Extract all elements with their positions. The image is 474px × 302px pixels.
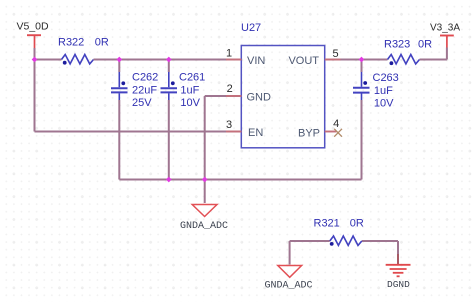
resistor R321 wires	[290, 240, 330, 242]
resistor R322	[62, 55, 94, 64]
pin stub EN	[226, 131, 242, 133]
pin stub BYP	[325, 131, 337, 133]
svg-text:R321: R321	[314, 217, 340, 229]
svg-text:C261: C261	[179, 72, 205, 84]
svg-text:R322: R322	[58, 37, 84, 49]
C263 dot	[363, 81, 367, 85]
wire top rail left segment	[35, 59, 62, 61]
wire R323 to V3_3A	[420, 59, 447, 61]
svg-text:3: 3	[226, 119, 232, 131]
svg-text:DGND: DGND	[387, 279, 410, 290]
svg-text:2: 2	[227, 83, 233, 95]
svg-text:VIN: VIN	[247, 55, 265, 67]
svg-text:1: 1	[226, 47, 232, 59]
wire EN horizontal	[35, 131, 242, 133]
junction VOUT node	[359, 57, 365, 63]
svg-text:25V: 25V	[132, 97, 152, 109]
svg-text:10V: 10V	[374, 97, 394, 109]
ground symbol DGND	[386, 265, 411, 277]
junction GND wire bottom	[202, 177, 208, 183]
wire bottom rail	[119, 179, 361, 181]
svg-text:EN: EN	[248, 127, 263, 139]
svg-text:GND: GND	[247, 91, 272, 103]
svg-text:1uF: 1uF	[180, 85, 199, 97]
svg-text:22uF: 22uF	[132, 85, 157, 97]
resistor R323	[388, 55, 420, 64]
junction C261 top	[166, 57, 172, 63]
wire left vertical to EN	[34, 60, 36, 132]
svg-text:0R: 0R	[95, 37, 109, 49]
junction C262 top	[116, 57, 122, 63]
wire from V5_0D to top rail junction	[34, 48, 36, 60]
svg-text:C263: C263	[373, 72, 399, 84]
svg-text:VOUT: VOUT	[288, 55, 319, 67]
capacitor C262 leads	[118, 60, 120, 180]
pin stub GND	[226, 95, 242, 97]
power symbol V3_3A	[440, 36, 454, 48]
capacitor C263 leads	[361, 60, 363, 180]
svg-text:0R: 0R	[418, 39, 432, 51]
power symbol V5_0D	[27, 35, 41, 48]
svg-text:1uF: 1uF	[374, 85, 393, 97]
IC U27 box	[241, 46, 324, 148]
svg-text:V3_3A: V3_3A	[430, 23, 460, 34]
wire top rail middle segment	[94, 59, 242, 61]
junction C261 bottom	[166, 177, 172, 183]
capacitor C262 plates	[111, 88, 128, 92]
junction top-left corner	[32, 57, 38, 63]
svg-text:C262: C262	[132, 72, 158, 84]
pin stub VOUT	[325, 59, 341, 61]
wire VOUT to junction and R323	[325, 59, 388, 61]
svg-text:GNDA_ADC: GNDA_ADC	[180, 221, 228, 232]
R322 pin1 dot	[63, 61, 67, 65]
ground symbol GNDA_ADC right	[278, 266, 302, 278]
svg-text:U27: U27	[241, 22, 261, 34]
wire GND vertical down to ground	[204, 96, 206, 203]
capacitor C261 plates	[161, 88, 178, 92]
no-connect X on BYP	[334, 129, 342, 137]
ground symbol GNDA_ADC main	[192, 205, 217, 217]
R323 pin1 dot	[390, 61, 394, 65]
pin stub VIN	[226, 59, 242, 61]
svg-text:GNDA_ADC: GNDA_ADC	[265, 281, 313, 292]
svg-text:V5_0D: V5_0D	[17, 21, 50, 33]
wire GND pin2 horizontal	[205, 95, 242, 97]
resistor R321	[330, 236, 362, 245]
svg-text:5: 5	[332, 48, 338, 60]
svg-text:R323: R323	[384, 39, 410, 51]
capacitor C261 leads	[168, 60, 170, 180]
C261 dot	[171, 81, 175, 85]
svg-text:BYP: BYP	[298, 128, 320, 140]
svg-text:4: 4	[333, 118, 339, 130]
svg-text:10V: 10V	[180, 97, 200, 109]
C262 dot	[121, 81, 125, 85]
R321 pin1 dot	[330, 242, 334, 246]
svg-text:0R: 0R	[350, 217, 364, 229]
capacitor C263 plates	[353, 88, 370, 93]
